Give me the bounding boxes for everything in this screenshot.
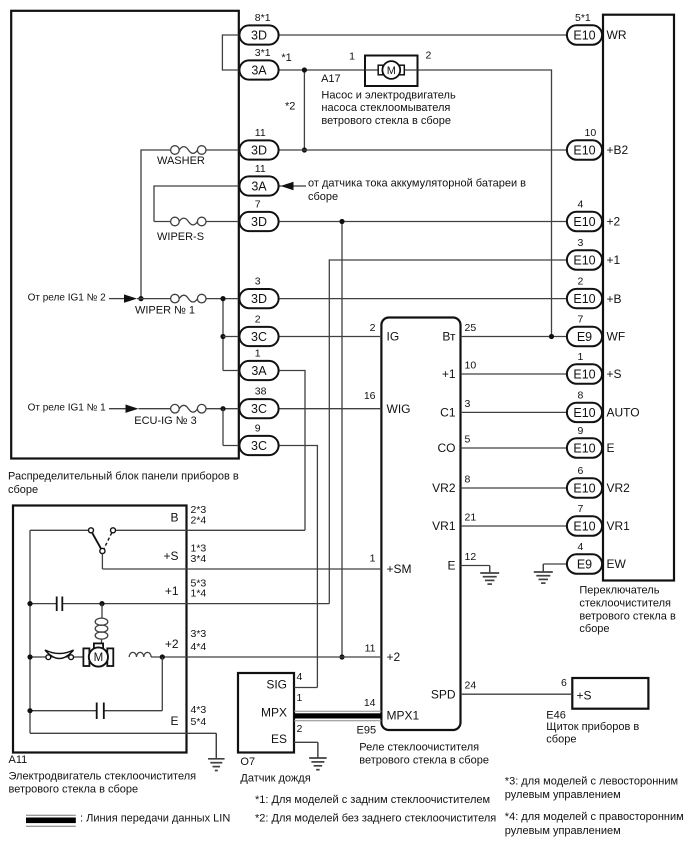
arrow to 3A(11) xyxy=(281,182,294,190)
svg-text:EW: EW xyxy=(607,557,627,571)
svg-text:Насос и электродвигатель: Насос и электродвигатель xyxy=(321,89,456,101)
wire A11 +S / switch common to E95 +SM xyxy=(102,568,381,570)
wire from relay IG1 No2 xyxy=(109,298,125,300)
svg-text:A17: A17 xyxy=(321,73,341,85)
wire 3C(9) to O7 SIG xyxy=(279,445,318,447)
rain sensor block O7 xyxy=(238,673,294,753)
svg-text:25: 25 xyxy=(465,322,477,334)
svg-text:3A: 3A xyxy=(251,364,267,378)
svg-text:3: 3 xyxy=(465,398,471,410)
svg-text:C1: C1 xyxy=(440,406,456,420)
svg-text:E10: E10 xyxy=(573,28,595,42)
svg-text:E: E xyxy=(170,714,178,728)
node WASHER rail / WIPER row xyxy=(138,296,143,301)
svg-text:3: 3 xyxy=(255,276,261,288)
connector E10 pin 6 (VR2) xyxy=(567,478,602,497)
node A11 +1 left xyxy=(27,601,32,606)
svg-text:+S: +S xyxy=(163,549,178,563)
svg-text:3D: 3D xyxy=(251,143,267,157)
svg-text:Электродвигатель стеклоочистит: Электродвигатель стеклоочистителя xyxy=(9,771,197,783)
wire E10 +1 to A11 +1 xyxy=(329,259,567,261)
svg-text:Распределительный блок панели: Распределительный блок панели приборов в xyxy=(8,470,239,482)
svg-text:*1: *1 xyxy=(281,52,291,64)
svg-text:CO: CO xyxy=(438,441,456,455)
svg-text:+1: +1 xyxy=(607,253,621,267)
svg-text:+B: +B xyxy=(607,292,622,306)
wire 3A(3*1) to washer motor pin1 xyxy=(279,69,365,71)
svg-text:4: 4 xyxy=(578,199,584,211)
svg-text:SIG: SIG xyxy=(266,677,287,691)
svg-text:M: M xyxy=(387,65,396,77)
svg-text:*1: Для моделей с задним стекл: *1: Для моделей с задним стеклоочистител… xyxy=(255,794,490,806)
svg-text:WR: WR xyxy=(607,28,627,42)
svg-text:ветрового стекла в: ветрового стекла в xyxy=(579,610,676,622)
connector E10 pin 2 (+B) xyxy=(567,289,602,308)
svg-text:11: 11 xyxy=(255,127,266,139)
svg-text:Вт: Вт xyxy=(442,330,456,344)
wire rail to 3C(2) xyxy=(223,336,239,338)
LIN bus O7 MPX to E95 MPX1 xyxy=(294,710,381,712)
svg-text:WIPER-S: WIPER-S xyxy=(157,231,204,243)
svg-text:2: 2 xyxy=(578,276,584,288)
svg-text:8: 8 xyxy=(465,474,471,486)
svg-text:E10: E10 xyxy=(573,406,595,420)
svg-text:8*1: 8*1 xyxy=(255,12,271,24)
svg-text:10: 10 xyxy=(465,360,477,372)
svg-text:сборе: сборе xyxy=(8,484,38,496)
node A11 +2 left xyxy=(27,654,32,659)
svg-text:MPX: MPX xyxy=(261,705,287,719)
node A11 +1 coil branch xyxy=(99,601,104,606)
capacitor C (noise) on +1 row xyxy=(56,597,58,612)
ground EW xyxy=(542,564,544,572)
wire 3D(7) to E10 +2 xyxy=(279,221,567,223)
wiper motor brush left xyxy=(83,648,89,666)
wire O7 ES to ground xyxy=(294,741,318,743)
svg-text:ветрового стекла в сборе: ветрового стекла в сборе xyxy=(9,783,139,795)
svg-text:SPD: SPD xyxy=(431,687,456,701)
svg-text:E10: E10 xyxy=(573,143,595,157)
svg-text:ECU-IG № 3: ECU-IG № 3 xyxy=(134,415,197,427)
svg-text:+S: +S xyxy=(577,689,592,703)
wire E95 VR2 to E10 VR2 xyxy=(461,487,568,489)
inductor coil on +2 row xyxy=(129,652,151,657)
svg-text:WF: WF xyxy=(607,330,626,344)
svg-text:1: 1 xyxy=(578,351,584,363)
wiper motor M circle xyxy=(89,647,108,666)
fuse WIPER-S xyxy=(171,217,180,226)
wire 3C(2) to E95 IG xyxy=(279,336,382,338)
A11 park switch contact right xyxy=(111,528,116,533)
svg-text:2: 2 xyxy=(297,723,303,735)
connector 3C pin 2 xyxy=(239,327,278,346)
svg-text:IG: IG xyxy=(387,330,400,344)
arrow relay IG1 No1 xyxy=(126,405,139,413)
svg-text:E9: E9 xyxy=(577,557,592,571)
svg-text:4*4: 4*4 xyxy=(191,641,207,653)
wire washer motor pin2 right xyxy=(418,69,552,71)
jb internal bracket wire 3D/3A xyxy=(222,34,239,36)
A17 brush left xyxy=(378,65,383,75)
svg-text:E10: E10 xyxy=(573,441,595,455)
A11 switch common down wire xyxy=(101,554,103,569)
svg-text:E10: E10 xyxy=(573,367,595,381)
svg-text:5: 5 xyxy=(465,434,471,446)
svg-text:M: M xyxy=(94,652,104,664)
svg-text:E: E xyxy=(607,441,615,455)
svg-text:ветрового стекла в сборе: ветрового стекла в сборе xyxy=(321,115,451,127)
connector E10 pin 4 (+2) xyxy=(567,212,602,231)
connector 3D pin 7 xyxy=(239,212,278,231)
svg-text:сборе: сборе xyxy=(579,623,609,635)
wire from relay IG1 No1 xyxy=(109,408,126,410)
svg-text:От реле IG1 № 2: От реле IG1 № 2 xyxy=(28,293,107,304)
node WF junction xyxy=(549,334,554,339)
A11 left rail xyxy=(29,530,31,733)
wiper motor brush right xyxy=(107,648,113,666)
connector E9 pin 7 (WF) xyxy=(567,327,602,346)
A17 brush right xyxy=(400,65,405,75)
svg-text:5*1: 5*1 xyxy=(575,12,591,24)
fuse WASHER xyxy=(171,146,180,155)
svg-text:Щиток приборов в: Щиток приборов в xyxy=(546,721,639,733)
svg-text:3D: 3D xyxy=(251,292,267,306)
svg-text:6: 6 xyxy=(578,465,584,477)
svg-text:24: 24 xyxy=(465,680,477,692)
svg-text:: Линия передачи данных LIN: : Линия передачи данных LIN xyxy=(80,812,230,824)
wire 3D(8*1) to E10 WR xyxy=(279,34,567,36)
A17 inner wires xyxy=(365,69,379,71)
svg-text:1: 1 xyxy=(349,51,355,63)
svg-text:4: 4 xyxy=(578,541,584,553)
svg-text:+2: +2 xyxy=(607,215,621,229)
ground O7 ES xyxy=(317,742,319,758)
A17 motor circle xyxy=(382,61,400,79)
svg-text:E10: E10 xyxy=(573,215,595,229)
fuse ECU-IG No3 xyxy=(171,404,180,413)
wire E95 VR1 to E10 VR1 xyxy=(461,525,568,527)
ground A11 E xyxy=(215,733,217,759)
svg-text:от датчика тока аккумуляторной: от датчика тока аккумуляторной батареи в xyxy=(308,177,526,189)
wire 3D(3) to E10 +B xyxy=(279,298,567,300)
svg-text:WIG: WIG xyxy=(387,402,411,416)
svg-text:4: 4 xyxy=(297,671,303,683)
svg-text:9: 9 xyxy=(578,425,584,437)
svg-text:3: 3 xyxy=(578,237,584,249)
svg-text:7: 7 xyxy=(255,199,261,211)
svg-text:Переключатель: Переключатель xyxy=(579,585,659,597)
connector 3D pin 3 xyxy=(239,289,278,308)
svg-text:+2: +2 xyxy=(387,650,401,664)
wire E95 E pin to ground xyxy=(461,565,490,567)
park cam crescent xyxy=(45,650,74,659)
combination meter block E46 xyxy=(572,678,648,709)
svg-text:16: 16 xyxy=(364,390,376,402)
connector E10 pin 10 (+B2) xyxy=(567,140,602,159)
wire E9 EW to ground xyxy=(543,563,567,565)
svg-text:ES: ES xyxy=(271,732,287,746)
A11 park switch contact left xyxy=(89,528,94,533)
svg-text:2: 2 xyxy=(370,322,376,334)
node *2 top xyxy=(302,67,307,72)
connector 3A pin 11 xyxy=(239,176,278,195)
svg-text:+1: +1 xyxy=(442,367,456,381)
svg-text:11: 11 xyxy=(255,163,266,175)
svg-text:сборе: сборе xyxy=(546,733,576,745)
wiper motor block A11 xyxy=(13,506,187,753)
svg-text:8: 8 xyxy=(578,389,584,401)
connector E10 pin 7 (VR1) xyxy=(567,516,602,535)
A11 +2 row wire left segs xyxy=(30,656,46,658)
svg-text:VR2: VR2 xyxy=(607,481,631,495)
armature choke coil vertical xyxy=(101,604,103,618)
svg-text:3A: 3A xyxy=(251,179,267,193)
A11 E row wire to ground xyxy=(30,732,216,734)
wire A11 +2 to E95 +2 xyxy=(151,656,381,658)
svg-text:6: 6 xyxy=(561,677,567,689)
washer motor A17 box xyxy=(365,56,418,87)
connector 3D pin 11 xyxy=(239,140,278,159)
svg-text:1*4: 1*4 xyxy=(191,588,207,600)
wiper motor M armature cap xyxy=(94,643,103,649)
svg-text:VR1: VR1 xyxy=(432,519,456,533)
connector E10 pin 9 (E) xyxy=(567,438,602,457)
A11 B row wire xyxy=(30,529,89,531)
wire E95 SPD to E46 +S xyxy=(461,693,573,695)
svg-text:насоса стеклоомывателя: насоса стеклоомывателя xyxy=(321,102,450,114)
wire motor pin2 down to WF row xyxy=(551,69,553,336)
connector 3D pin 8*1 xyxy=(239,25,278,44)
svg-text:+B2: +B2 xyxy=(607,143,629,157)
wiper relay block E95 xyxy=(381,318,460,731)
svg-text:От реле IG1 № 1: От реле IG1 № 1 xyxy=(28,403,107,414)
A11 switch blade dashed xyxy=(104,533,112,549)
svg-text:VR1: VR1 xyxy=(607,519,631,533)
svg-text:*3: для моделей с левосторонни: *3: для моделей с левосторонним xyxy=(505,776,678,788)
svg-text:11: 11 xyxy=(365,643,376,655)
svg-text:E10: E10 xyxy=(573,519,595,533)
connector 3A pin 3*1 xyxy=(239,60,278,79)
A11 +1 row wire xyxy=(30,603,56,605)
svg-text:+S: +S xyxy=(607,367,622,381)
wire E95 CO to E10 E xyxy=(461,447,568,449)
connector 3C pin 9 xyxy=(239,436,278,455)
svg-text:7: 7 xyxy=(578,314,584,326)
svg-text:5*4: 5*4 xyxy=(191,716,207,728)
node fuse rail 3C(2) xyxy=(220,334,225,339)
svg-text:E10: E10 xyxy=(573,253,595,267)
wire 3A(11) loop to WIPER-S fuse xyxy=(154,185,239,187)
node ECU-IG rail xyxy=(220,406,225,411)
svg-text:2: 2 xyxy=(426,50,432,62)
wire E95 BT to E9 WF xyxy=(461,336,568,338)
wire 3A(11) to battery current sensor note xyxy=(279,185,282,187)
wire E95 C1 to E10 AUTO xyxy=(461,411,568,413)
svg-text:A11: A11 xyxy=(9,754,28,766)
svg-text:3*4: 3*4 xyxy=(191,553,207,565)
arrow relay IG1 No2 xyxy=(124,294,137,302)
svg-text:рулевым управлением: рулевым управлением xyxy=(505,825,621,837)
wire WASHER rail down to WIPER No1 row xyxy=(140,149,142,298)
wire *2 branch xyxy=(303,70,305,150)
svg-text:AUTO: AUTO xyxy=(607,406,640,420)
svg-text:рулевым управлением: рулевым управлением xyxy=(505,789,621,801)
wire rail to 3A(1) xyxy=(223,370,239,372)
node A11 +2 coil junction xyxy=(160,654,165,659)
svg-text:9: 9 xyxy=(255,423,261,435)
svg-text:3C: 3C xyxy=(251,439,267,453)
wire 3D(11) to E10 +B2 xyxy=(279,149,567,151)
park cam contact circles xyxy=(46,655,51,660)
wire ECU-IG rail to 3C(9) xyxy=(222,409,224,446)
svg-text:2: 2 xyxy=(255,314,261,326)
svg-text:21: 21 xyxy=(465,512,477,524)
fuse WIPER No1 xyxy=(171,294,180,303)
wire +2 rail down xyxy=(341,222,343,658)
svg-text:1: 1 xyxy=(255,348,261,360)
svg-text:10: 10 xyxy=(585,127,597,139)
connector E10 pin 1 (+S) xyxy=(567,364,602,383)
node *2 bottom xyxy=(302,147,307,152)
svg-text:*2: Для моделей без заднего ст: *2: Для моделей без заднего стеклоочисти… xyxy=(255,812,496,824)
connector E10 pin 5*1 (WR) xyxy=(567,25,602,44)
svg-text:E9: E9 xyxy=(577,330,592,344)
svg-text:3*3: 3*3 xyxy=(191,628,207,640)
wire 3A(1) to A11 B pin xyxy=(279,370,305,372)
svg-text:стеклоочистителя: стеклоочистителя xyxy=(579,597,671,609)
svg-text:2*4: 2*4 xyxy=(191,514,207,526)
svg-text:WASHER: WASHER xyxy=(157,155,205,167)
svg-text:B: B xyxy=(170,511,178,525)
svg-text:E46: E46 xyxy=(546,709,566,721)
svg-text:сборе: сборе xyxy=(308,191,338,203)
node +2 rail bottom xyxy=(339,654,344,659)
wire E95 +1 to E10 +S xyxy=(461,373,568,375)
connector 3C pin 38 xyxy=(239,399,278,418)
svg-text:E10: E10 xyxy=(573,481,595,495)
svg-text:14: 14 xyxy=(364,697,376,709)
node A11 bottom cap left xyxy=(27,708,32,713)
svg-text:12: 12 xyxy=(465,551,477,563)
connector E10 pin 3 (+1) xyxy=(567,250,602,269)
junction block (instrument panel J/B) xyxy=(11,11,239,459)
svg-text:*4: для моделей с правосторонн: *4: для моделей с правосторонним xyxy=(505,811,684,823)
svg-text:3A: 3A xyxy=(251,63,267,77)
svg-text:4*3: 4*3 xyxy=(191,704,207,716)
svg-text:Датчик дождя: Датчик дождя xyxy=(240,772,310,784)
svg-text:O7: O7 xyxy=(240,756,255,768)
wire 3C(38) to E95 WIG xyxy=(279,408,382,410)
svg-text:+SM: +SM xyxy=(387,562,412,576)
svg-text:+1: +1 xyxy=(165,584,179,598)
node +2 rail top xyxy=(339,219,344,224)
capacitor C (noise) bottom xyxy=(96,703,98,720)
svg-text:3D: 3D xyxy=(251,28,267,42)
wiper switch block xyxy=(603,15,674,581)
svg-text:ветрового стекла в сборе: ветрового стекла в сборе xyxy=(359,755,489,767)
svg-text:E: E xyxy=(447,559,455,573)
svg-text:7: 7 xyxy=(578,503,584,515)
svg-text:3D: 3D xyxy=(251,215,267,229)
svg-text:1: 1 xyxy=(370,552,376,564)
ground E95 E xyxy=(489,566,491,574)
wire WASHER fuse row xyxy=(141,149,171,151)
svg-text:38: 38 xyxy=(255,386,267,398)
wire fuse rail down to 3A(1) xyxy=(222,299,224,371)
svg-text:+2: +2 xyxy=(165,637,179,651)
svg-text:E10: E10 xyxy=(573,292,595,306)
svg-text:Реле стеклоочистителя: Реле стеклоочистителя xyxy=(359,741,479,753)
svg-text:WIPER № 1: WIPER № 1 xyxy=(135,305,195,317)
svg-text:MPX1: MPX1 xyxy=(387,709,420,723)
connector E10 pin 8 (AUTO) xyxy=(567,403,602,422)
A11 bottom capacitor row xyxy=(30,710,96,712)
svg-text:3C: 3C xyxy=(251,402,267,416)
connector 3A pin 1 xyxy=(239,361,278,380)
svg-text:E95: E95 xyxy=(357,724,377,736)
svg-text:3*1: 3*1 xyxy=(255,47,271,59)
node fuse rail top xyxy=(220,296,225,301)
legend LIN bus symbol xyxy=(26,814,76,816)
svg-text:VR2: VR2 xyxy=(432,481,456,495)
connector E9 pin 4 (EW) xyxy=(567,554,602,573)
A11 switch blade solid xyxy=(92,533,101,550)
svg-text:1: 1 xyxy=(297,692,303,704)
A11 park switch common contact xyxy=(100,548,105,553)
svg-text:3C: 3C xyxy=(251,330,267,344)
svg-text:*2: *2 xyxy=(285,101,295,113)
